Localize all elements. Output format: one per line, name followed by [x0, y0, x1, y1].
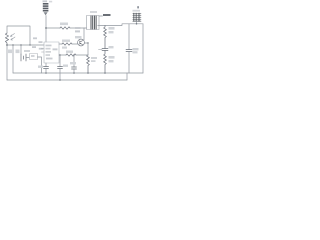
wire — [7, 26, 30, 45]
wire — [99, 15, 103, 17]
resistor R3 — [104, 26, 115, 49]
wire — [83, 28, 85, 40]
LDR arrows — [10, 34, 15, 41]
resistor R4 — [104, 51, 115, 74]
wire — [70, 27, 84, 29]
wire — [98, 24, 143, 26]
resistor R1 (LDR) — [5, 33, 8, 45]
wire — [126, 73, 128, 80]
node junctions — [6, 23, 137, 81]
capacitor C2 — [16, 45, 22, 54]
wire (bus upper) — [13, 72, 143, 74]
wire — [84, 43, 88, 55]
wire (ground bus lower) — [7, 79, 127, 81]
transistor Q1 — [75, 36, 84, 46]
transformer T1 — [75, 11, 99, 32]
capacitor C5 — [126, 24, 139, 73]
capacitor C4 — [99, 46, 114, 51]
op-amp U1 (IC box) — [32, 37, 59, 63]
wire — [7, 44, 44, 46]
wire — [6, 45, 8, 80]
battery B1 — [21, 50, 42, 73]
capacitor C8 — [70, 55, 77, 73]
resistor R2 — [60, 23, 70, 30]
resistor R6 — [87, 55, 97, 73]
capacitor C6 — [38, 63, 49, 73]
wire — [142, 24, 144, 73]
node label OUT — [103, 14, 111, 16]
microphone MIC1 — [43, 0, 53, 15]
capacitor C7 — [58, 55, 69, 80]
wire — [45, 16, 47, 43]
resistor R5 — [59, 40, 78, 49]
wire — [46, 27, 60, 29]
capacitor C1 — [8, 45, 13, 73]
resistor R7 — [59, 51, 88, 57]
battery B2 — [133, 6, 142, 21]
wire — [136, 21, 138, 23]
